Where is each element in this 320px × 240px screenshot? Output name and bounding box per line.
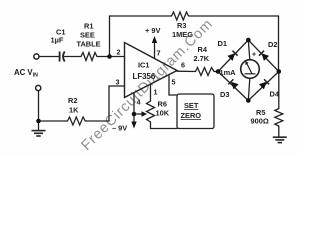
- svg-text:R4: R4: [198, 45, 208, 54]
- node A junction dot (R1 / pin2 / feedback): [107, 54, 112, 59]
- -9V supply arrow at pin 4: [112, 122, 137, 133]
- svg-text:ZERO: ZERO: [181, 111, 202, 120]
- wire bridge right vertex down to R5: [278, 72, 280, 109]
- wire pin 1 down to R6 top: [150, 85, 152, 102]
- svg-text:IC1: IC1: [138, 61, 150, 70]
- meter M1 1mA: [241, 60, 260, 79]
- diode D4: [259, 79, 269, 89]
- wire input top from terminal to C1: [39, 56, 59, 58]
- capacitor C1: [60, 52, 65, 62]
- svg-text:D1: D1: [218, 39, 227, 48]
- wire pin 4 down to -9V arrow: [133, 93, 135, 124]
- wire bridge arm bottom-right: [248, 72, 278, 101]
- junction dot bridge right vertex: [277, 69, 282, 74]
- wire meter to bottom vertex: [248, 79, 250, 101]
- terminal upper AC input: [34, 54, 39, 59]
- svg-text:R1: R1: [84, 22, 93, 31]
- wire top vertex to meter: [248, 40, 250, 60]
- junction dot bridge top vertex: [246, 38, 251, 43]
- svg-text:D2: D2: [268, 40, 277, 49]
- wire R6 bottom to box bottom: [151, 122, 178, 129]
- svg-text:7: 7: [157, 49, 161, 58]
- resistor R5: [275, 109, 283, 127]
- diode D2: [259, 51, 269, 61]
- ground below R5: [273, 137, 287, 142]
- +9V supply arrow at pin 7: [145, 26, 160, 59]
- svg-text:2: 2: [117, 48, 121, 57]
- svg-text:1MEG: 1MEG: [172, 30, 193, 39]
- junction dot bridge left vertex: [216, 69, 221, 74]
- wire R2 to corner below pin 3: [85, 120, 109, 122]
- junction dot bottom input node: [36, 119, 41, 124]
- op-amp U1 triangle: [125, 43, 178, 98]
- wire top rail right segment to right branch corner: [189, 15, 279, 17]
- wire right branch down to bridge right vertex: [278, 16, 280, 72]
- svg-text:+: +: [252, 52, 256, 59]
- wire R4 to bridge left vertex: [214, 71, 218, 73]
- diode D3: [228, 79, 238, 89]
- SET ZERO annotation box: [177, 94, 214, 129]
- wire R6 wiper from pin4 node: [134, 113, 144, 115]
- svg-text:SET: SET: [184, 101, 199, 110]
- wire pin 3 into op-amp: [109, 85, 125, 87]
- svg-text:4: 4: [137, 98, 141, 107]
- wire R5 to ground: [278, 126, 280, 137]
- resistor R3: [172, 12, 189, 20]
- wire pin 5 down and right to SET ZERO box: [169, 76, 177, 96]
- wire bridge arm top-right: [248, 40, 278, 72]
- svg-text:TABLE: TABLE: [77, 40, 101, 49]
- diode D1: [227, 51, 237, 61]
- svg-text:5: 5: [172, 78, 176, 87]
- svg-text:+ 9V: + 9V: [145, 26, 160, 35]
- potentiometer R6: [147, 101, 155, 122]
- wire vertical up to pin 3: [108, 86, 110, 121]
- svg-text:1mA: 1mA: [220, 68, 237, 77]
- wire node A up to top rail: [109, 16, 111, 57]
- svg-text:R3: R3: [177, 21, 186, 30]
- wire C1 to R1: [65, 56, 82, 58]
- wire R1 to op-amp pin 2: [97, 56, 125, 58]
- svg-text:6: 6: [181, 61, 185, 70]
- diode bridge wires: [218, 40, 279, 101]
- wire bridge arm left-bottom: [218, 72, 248, 101]
- watermark FreeCircuitDiagram.Com: [79, 17, 216, 154]
- wire lower terminal down to bottom node: [38, 91, 40, 121]
- svg-text:1: 1: [154, 88, 158, 97]
- svg-text:– 9V: – 9V: [112, 124, 127, 133]
- resistor R4: [196, 68, 215, 76]
- svg-text:SEE: SEE: [80, 31, 95, 40]
- junction dot bridge bottom vertex: [246, 98, 251, 103]
- wire bottom node to R2: [39, 120, 68, 122]
- svg-text:1K: 1K: [69, 106, 79, 115]
- svg-text:10K: 10K: [156, 109, 170, 118]
- wire ground stub at bottom node: [38, 121, 40, 130]
- resistor R2: [68, 117, 86, 125]
- svg-text:1µF: 1µF: [51, 36, 64, 45]
- wire top rail left segment: [110, 15, 172, 17]
- svg-text:3: 3: [116, 78, 120, 87]
- wire bridge arm left-top: [218, 40, 248, 72]
- terminal lower AC input: [36, 85, 41, 90]
- svg-text:900Ω: 900Ω: [251, 117, 269, 126]
- node pin4 / wiper junction dot: [132, 112, 137, 117]
- svg-text:LF356: LF356: [133, 72, 156, 81]
- svg-text:2.7K: 2.7K: [194, 54, 210, 63]
- svg-text:R2: R2: [68, 96, 77, 105]
- svg-text:D3: D3: [220, 90, 229, 99]
- ground at bottom input node: [32, 131, 46, 136]
- resistor R1: [81, 53, 97, 61]
- wire output pin 6 to R4: [177, 70, 196, 72]
- svg-text:D4: D4: [270, 90, 280, 99]
- svg-text:R6: R6: [158, 100, 167, 109]
